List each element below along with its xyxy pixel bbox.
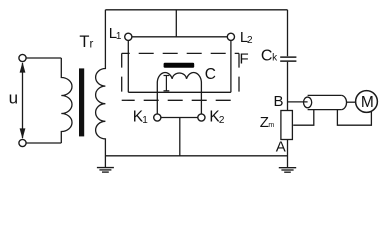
capacitor Ck	[280, 57, 296, 61]
drop wire from top rail to L1-L2 line	[175, 10, 177, 37]
wire K1 to K2	[161, 117, 198, 119]
svg-text:C: C	[205, 66, 216, 83]
svg-text:K1: K1	[133, 109, 148, 126]
impedance Zm box	[281, 111, 293, 140]
transformer core	[79, 68, 84, 136]
tuning slug	[164, 76, 170, 91]
motor M circle	[356, 91, 378, 113]
dashed box F top edge	[122, 52, 239, 54]
holder bottom wire	[128, 91, 231, 93]
top rail wire	[105, 9, 287, 11]
svg-text:B: B	[274, 93, 284, 110]
svg-text:Zm: Zm	[260, 114, 275, 131]
svg-text:L1: L1	[109, 25, 122, 42]
coaxial cable body	[304, 95, 347, 109]
svg-text:F: F	[240, 51, 249, 68]
right branch from top rail	[287, 10, 289, 56]
svg-text:Ck: Ck	[261, 48, 278, 65]
svg-text:Tr: Tr	[79, 33, 93, 51]
wire source bottom to primary	[26, 142, 61, 144]
svg-text:A: A	[276, 138, 286, 155]
terminal L2	[227, 33, 234, 40]
dashed box F right edge	[238, 53, 240, 100]
dashed box F bottom edge	[122, 99, 239, 101]
wire Ck to B to Zm	[287, 62, 289, 111]
svg-text:L2: L2	[240, 29, 253, 46]
wire source top to primary	[26, 57, 61, 59]
wire L1 to L2	[132, 36, 227, 38]
wire L1 down	[127, 40, 129, 92]
wire L2 down	[230, 40, 232, 92]
ground right	[279, 168, 296, 173]
bottom rail wire	[105, 155, 287, 157]
ground left	[97, 168, 114, 173]
wire cable to motor	[347, 101, 356, 103]
inductor C	[157, 73, 201, 114]
transformer secondary winding + left branch	[96, 10, 106, 167]
crystal plate (black bar)	[164, 63, 195, 68]
wire node B to cable centre pin	[288, 101, 308, 103]
svg-text:M: M	[361, 94, 374, 111]
wire cable shield to motor case	[337, 110, 371, 126]
svg-text:K2: K2	[209, 109, 224, 126]
terminal bottom-left	[19, 139, 26, 146]
wire Zm to ground	[287, 140, 289, 168]
wire K middle down to bottom rail	[179, 118, 181, 156]
terminal K2	[198, 114, 205, 121]
transformer Tr primary winding	[61, 58, 72, 143]
terminal L1	[125, 33, 132, 40]
terminal top-left	[19, 54, 26, 61]
terminal K1	[154, 114, 161, 121]
svg-text:u: u	[9, 89, 18, 108]
voltage arrow u	[20, 62, 26, 139]
dashed box F left edge	[121, 53, 123, 100]
wire cable shield to Zm	[293, 110, 314, 126]
